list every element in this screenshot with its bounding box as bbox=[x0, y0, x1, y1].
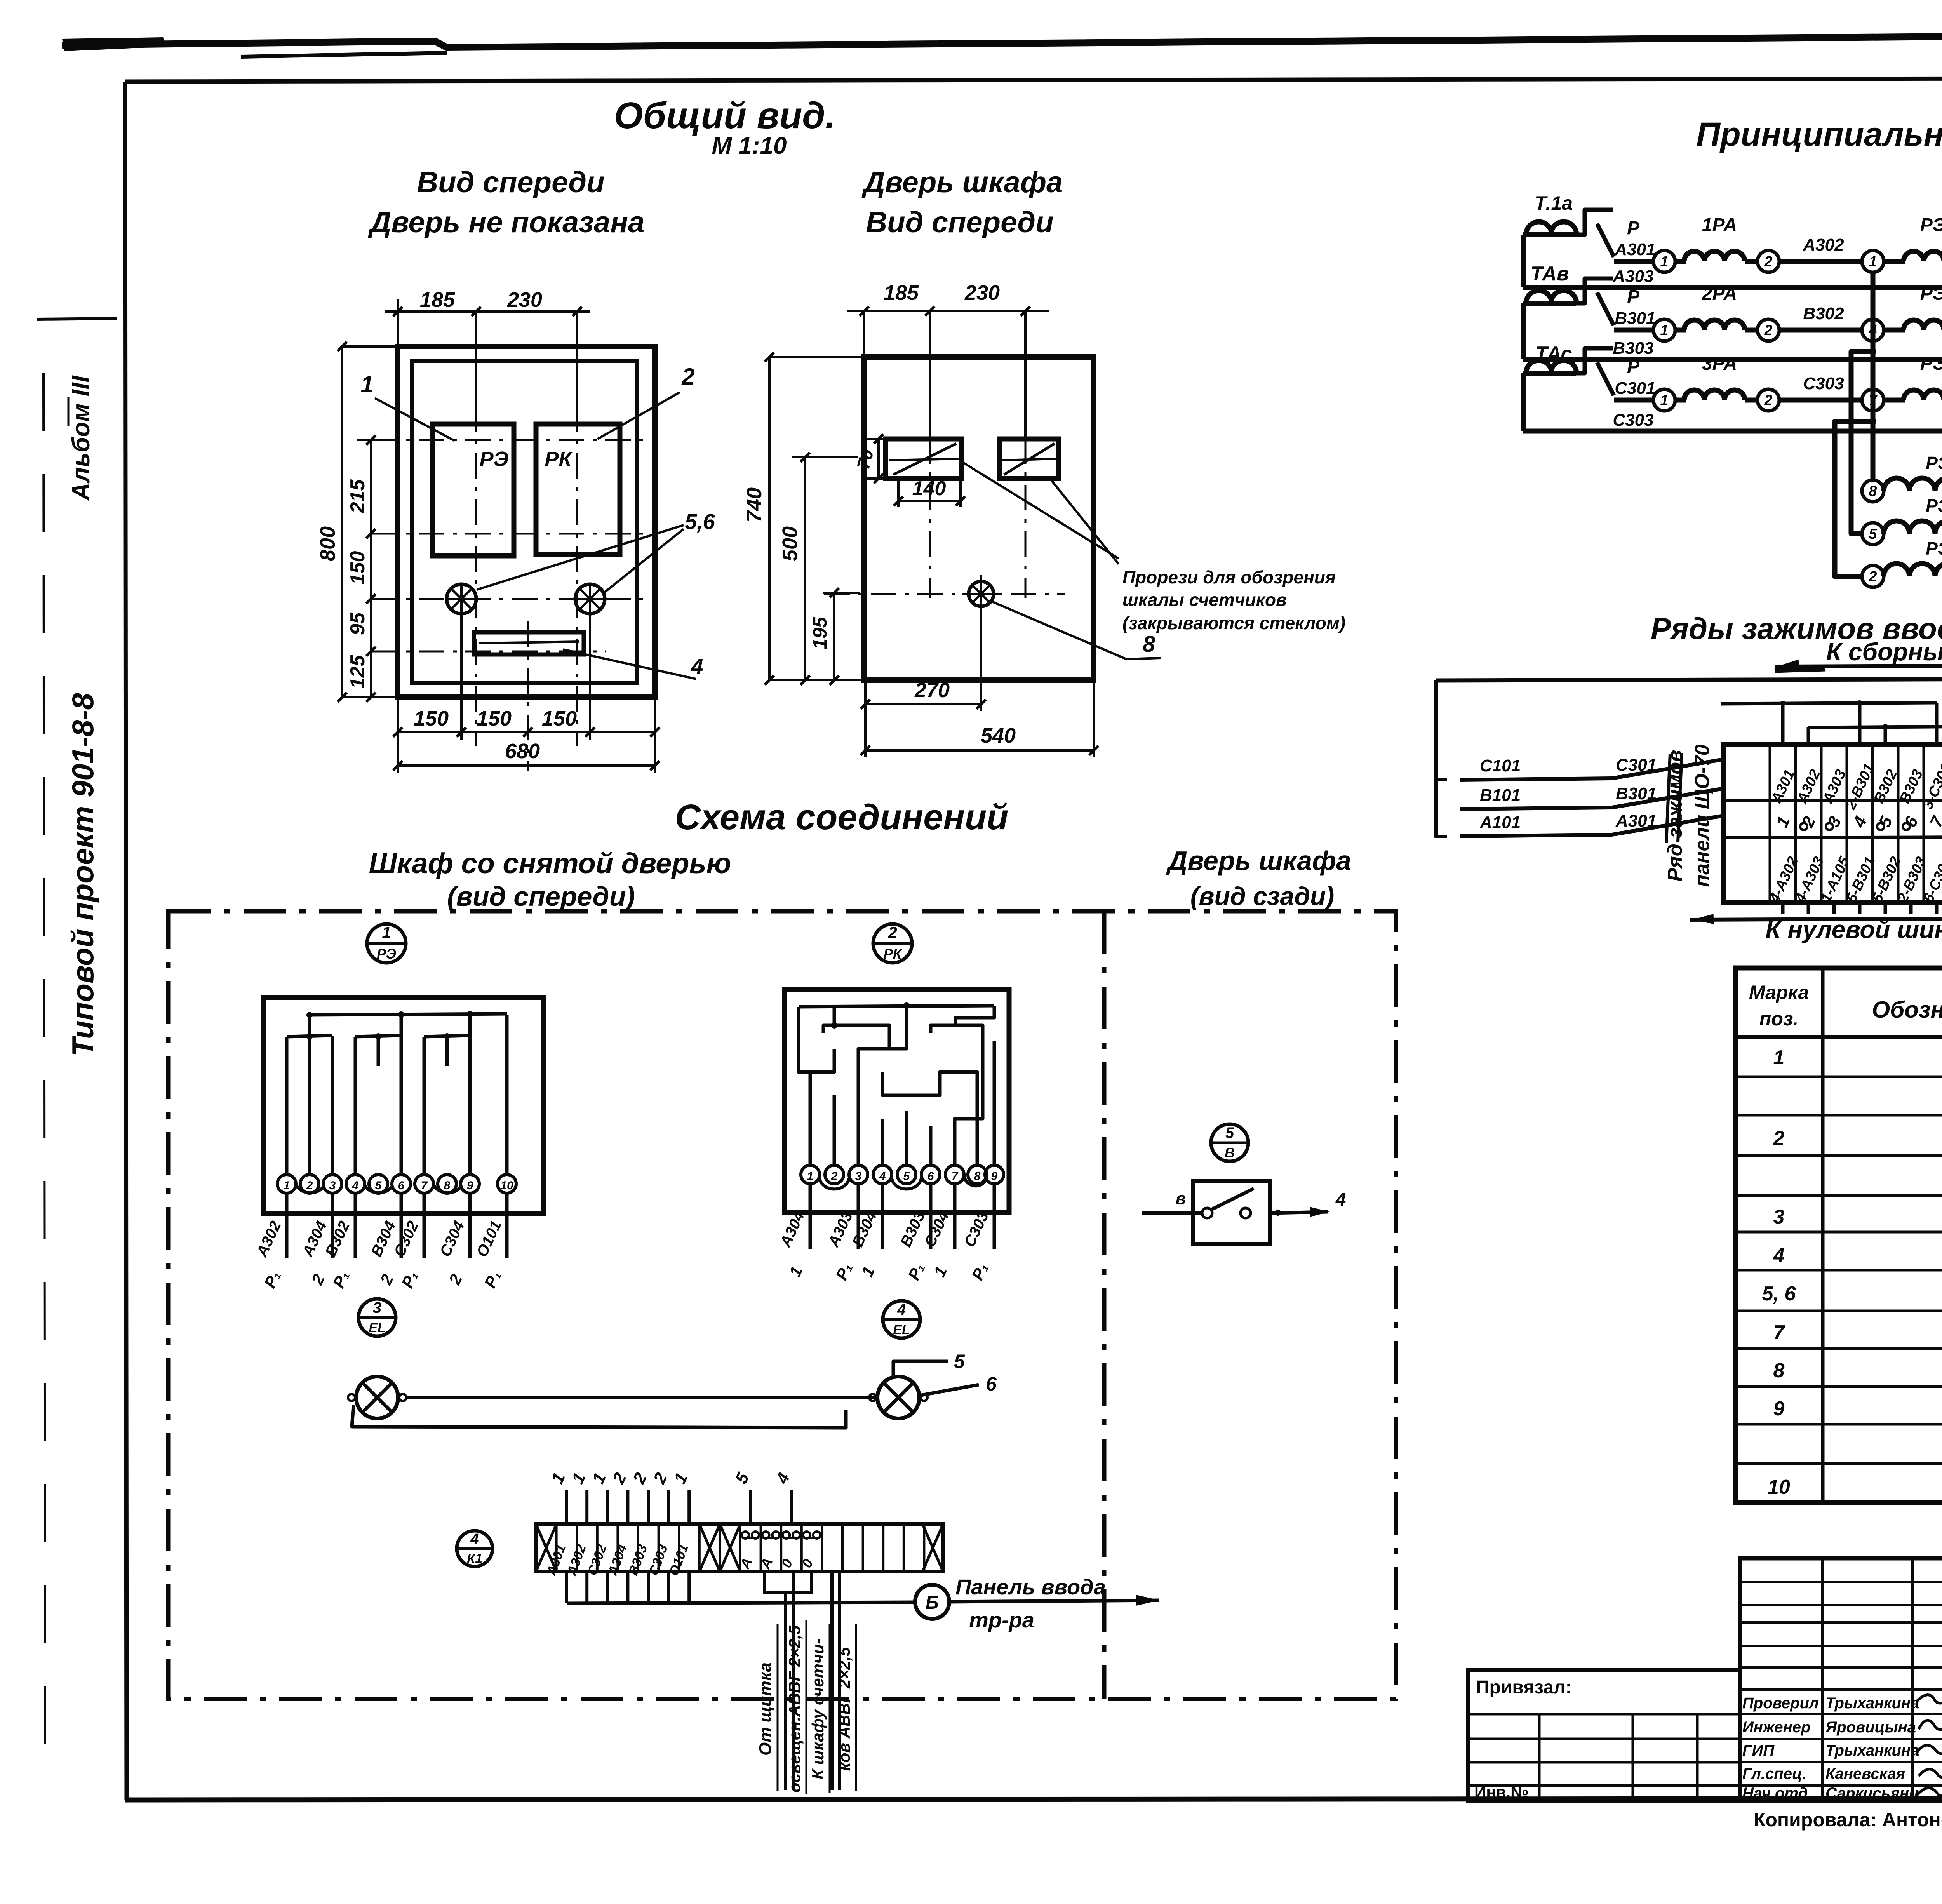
svg-text:шкалы счетчиков: шкалы счетчиков bbox=[1122, 590, 1287, 610]
svg-text:3РА: 3РА bbox=[1702, 353, 1737, 374]
left table rows bbox=[1468, 1713, 1740, 1716]
wiring box RK terminals 1-9 bbox=[801, 1165, 820, 1184]
svg-text:ЕL: ЕL bbox=[369, 1321, 385, 1335]
mid table verticals bbox=[1821, 1558, 1824, 1801]
K1 cable loop bbox=[764, 1572, 812, 1592]
voltage meter coil REh row В bbox=[1904, 320, 1942, 330]
svg-text:Типовой проект 901-8-8: Типовой проект 901-8-8 bbox=[66, 693, 100, 1056]
phase wires diagonal jogs bbox=[1612, 759, 1723, 778]
svg-text:150: 150 bbox=[477, 707, 512, 730]
title block left table frame bbox=[1468, 1670, 1740, 1801]
svg-text:Гл.спец.: Гл.спец. bbox=[1742, 1765, 1806, 1782]
REh voltage node 8 bbox=[1862, 480, 1884, 502]
switch P frame row А bbox=[1576, 210, 1613, 235]
junction node 1 row А bbox=[1862, 251, 1884, 272]
switch P blade row А bbox=[1597, 224, 1614, 257]
svg-text:8: 8 bbox=[1869, 483, 1877, 499]
return wire row А bbox=[1523, 285, 1942, 290]
svg-text:Т.1а: Т.1а bbox=[1535, 192, 1573, 214]
svg-text:7: 7 bbox=[421, 1179, 428, 1192]
node 1 row С bbox=[1653, 389, 1675, 411]
svg-text:Инженер: Инженер bbox=[1742, 1719, 1810, 1736]
wiring box REh bottom leads bbox=[285, 1193, 289, 1258]
null bus to K nulevoy shine bbox=[1690, 903, 1942, 920]
svg-text:А101: А101 bbox=[1479, 813, 1521, 832]
lamp EL left symbol bbox=[356, 1377, 398, 1418]
svg-text:А301: А301 bbox=[1614, 240, 1655, 259]
svg-text:1: 1 bbox=[807, 1170, 814, 1183]
svg-text:150: 150 bbox=[414, 707, 449, 730]
svg-text:6: 6 bbox=[398, 1179, 405, 1192]
svg-text:4: 4 bbox=[897, 1301, 906, 1318]
svg-text:500: 500 bbox=[778, 526, 802, 561]
callout circle 3/EL bbox=[358, 1299, 396, 1336]
centerline horizontal meters top bbox=[372, 439, 645, 441]
dim chain bottom 150x3 bbox=[398, 731, 655, 733]
svg-text:Принципиальная схема: Принципиальная схема bbox=[1696, 116, 1942, 153]
junction node 4 row В bbox=[1862, 319, 1884, 341]
title block mid table frame bbox=[1740, 1558, 1942, 1801]
cable group marks bbox=[1666, 754, 1670, 843]
svg-text:3: 3 bbox=[855, 1170, 862, 1183]
circle B bottom bbox=[915, 1585, 949, 1619]
CT left lead row А bbox=[1521, 235, 1526, 287]
svg-text:Марка: Марка bbox=[1749, 982, 1809, 1003]
leader slots to note bbox=[959, 460, 1119, 559]
wire junction-REhcoil row В bbox=[1884, 328, 1905, 333]
dim line 195 bbox=[833, 593, 835, 680]
svg-text:РК: РК bbox=[884, 946, 903, 962]
svg-text:В301: В301 bbox=[1615, 309, 1655, 328]
callout circle 2/RK bbox=[873, 924, 912, 963]
current transformer row А (bumps) bbox=[1523, 232, 1576, 237]
return wire row В bbox=[1523, 357, 1942, 362]
wire between lamps bbox=[406, 1396, 877, 1399]
svg-text:А302: А302 bbox=[1803, 235, 1844, 254]
lamp hole left (crossed circle) bbox=[447, 584, 476, 614]
main wire row С bbox=[1614, 398, 1654, 403]
svg-text:Инв.№: Инв.№ bbox=[1474, 1783, 1529, 1801]
svg-text:9: 9 bbox=[991, 1170, 998, 1183]
svg-text:1: 1 bbox=[382, 923, 391, 942]
svg-text:4: 4 bbox=[470, 1531, 479, 1547]
svg-text:ТАв: ТАв bbox=[1531, 263, 1569, 285]
svg-text:Вид спереди: Вид спереди bbox=[866, 206, 1053, 239]
wire node1-coil row А bbox=[1675, 259, 1686, 264]
node 2 row А bbox=[1758, 251, 1779, 272]
svg-text:2: 2 bbox=[1773, 1127, 1785, 1150]
voltage meter coil REh row А bbox=[1904, 251, 1942, 261]
K1 top leads 5 and 4 bbox=[749, 1490, 752, 1524]
wire node2-junction row С with label С303 bbox=[1779, 398, 1862, 403]
dim chain left inner bbox=[370, 440, 372, 697]
svg-text:800: 800 bbox=[316, 526, 339, 561]
svg-text:В101: В101 bbox=[1480, 786, 1521, 805]
K1 top leads with numbers bbox=[565, 1490, 568, 1524]
svg-text:М 1:10: М 1:10 bbox=[712, 132, 787, 159]
svg-text:4: 4 bbox=[691, 654, 703, 679]
svg-text:Панель ввода: Панель ввода bbox=[955, 1575, 1106, 1599]
svg-text:3: 3 bbox=[373, 1299, 381, 1316]
svg-text:в: в bbox=[1176, 1189, 1186, 1208]
svg-text:Схема соединений: Схема соединений bbox=[675, 797, 1009, 837]
lamp return wire loop bbox=[352, 1405, 846, 1428]
left margin stub line bbox=[37, 318, 117, 319]
svg-text:Каневская: Каневская bbox=[1825, 1765, 1905, 1782]
svg-text:Вид спереди: Вид спереди bbox=[417, 166, 604, 199]
svg-text:4: 4 bbox=[879, 1170, 886, 1183]
svg-text:Трыханкина: Трыханкина bbox=[1825, 1695, 1919, 1712]
svg-text:С301: С301 bbox=[1615, 379, 1655, 398]
sheet top edge line bbox=[62, 33, 1942, 47]
svg-text:740: 740 bbox=[743, 487, 766, 522]
svg-text:освещен.АВВГ 2×2,5: освещен.АВВГ 2×2,5 bbox=[785, 1625, 804, 1793]
svg-text:Прорези для обозрения: Прорези для обозрения bbox=[1122, 567, 1336, 587]
switch V box bbox=[1193, 1181, 1270, 1244]
door slot left centerline bbox=[929, 311, 931, 438]
dim line 740 bbox=[768, 357, 771, 680]
svg-text:РЭ: РЭ bbox=[480, 447, 509, 471]
svg-text:5: 5 bbox=[954, 1351, 965, 1372]
bus to collector bars with arrow bbox=[1775, 665, 1942, 667]
return wire row С bbox=[1523, 429, 1942, 434]
svg-text:К1: К1 bbox=[467, 1551, 482, 1566]
node 1 row А bbox=[1653, 251, 1675, 272]
svg-text:270: 270 bbox=[914, 679, 950, 702]
terminal strip horizontal dividers bbox=[1723, 799, 1942, 801]
callout circle 4/EL bbox=[883, 1301, 920, 1338]
bottom slot box bbox=[474, 632, 584, 654]
svg-text:10: 10 bbox=[500, 1179, 513, 1192]
K1 bottom bus to panel vvoda bbox=[565, 1572, 568, 1603]
centerline horizontal meters bottom bbox=[372, 533, 645, 535]
voltage meter coil REh row С bbox=[1904, 390, 1942, 400]
terminal strip feeder bus to cols 10-12 bbox=[1436, 679, 1942, 680]
svg-text:Б: Б bbox=[926, 1592, 939, 1613]
door slot right centerline bbox=[1024, 311, 1027, 438]
svg-text:Привязал:: Привязал: bbox=[1476, 1677, 1572, 1698]
svg-text:1: 1 bbox=[1869, 254, 1877, 270]
svg-text:4: 4 bbox=[1773, 1244, 1785, 1267]
bus row 301 cols 1 4 7 bbox=[1721, 703, 1937, 704]
svg-text:3: 3 bbox=[1773, 1206, 1785, 1228]
svg-text:1: 1 bbox=[360, 371, 373, 397]
terminal block K1 strip bbox=[536, 1524, 943, 1572]
door lamp centerline horizontal bbox=[824, 593, 1065, 595]
dim 140 slot width bbox=[898, 500, 961, 502]
svg-text:В303: В303 bbox=[1613, 339, 1653, 358]
svg-text:Проверил: Проверил bbox=[1742, 1695, 1819, 1712]
svg-text:680: 680 bbox=[505, 740, 540, 763]
svg-text:2РА: 2РА bbox=[1702, 284, 1737, 304]
svg-text:9: 9 bbox=[467, 1179, 473, 1192]
wire node2-junction row А with label А302 bbox=[1779, 259, 1862, 264]
svg-text:(закрываются стеклом): (закрываются стеклом) bbox=[1122, 613, 1345, 633]
parts table column lines bbox=[1821, 968, 1825, 1502]
centerline vertical slot bbox=[527, 621, 529, 771]
svg-text:1: 1 bbox=[1660, 254, 1668, 270]
svg-text:140: 140 bbox=[912, 477, 946, 500]
svg-text:РЭ: РЭ bbox=[1926, 496, 1942, 516]
current coil 1РА bbox=[1684, 251, 1745, 261]
wiring box RK frame bbox=[785, 989, 1009, 1213]
sheet left edge broken line bbox=[44, 373, 45, 1748]
svg-text:С303: С303 bbox=[1613, 411, 1653, 430]
svg-text:8: 8 bbox=[1773, 1359, 1785, 1382]
svg-text:2: 2 bbox=[1764, 322, 1772, 339]
svg-text:С101: С101 bbox=[1480, 756, 1521, 775]
svg-text:Саркисьянц: Саркисьянц bbox=[1825, 1785, 1919, 1802]
svg-text:Шкаф со снятой дверью: Шкаф со снятой дверью bbox=[369, 847, 731, 879]
wiring box RK terminal jumpers bbox=[820, 1175, 849, 1189]
switch P frame row С bbox=[1576, 348, 1613, 373]
wire coil-node2 row С bbox=[1745, 398, 1758, 403]
svg-text:РК: РК bbox=[545, 447, 573, 471]
svg-text:Яровицына: Яровицына bbox=[1825, 1719, 1916, 1736]
cabinet front view inner panel bbox=[412, 361, 637, 683]
callout circle 8/V switch bbox=[1211, 1124, 1248, 1161]
frame top line bbox=[125, 78, 1942, 82]
current coil 3РА bbox=[1684, 390, 1745, 400]
cabinet door divider dash-dot bbox=[1102, 911, 1107, 1699]
svg-text:5,6: 5,6 bbox=[685, 509, 715, 534]
lamp lead 5 bbox=[893, 1361, 948, 1378]
terminal strip middle row circles bbox=[1800, 823, 1807, 830]
svg-text:К нулевой шине: К нулевой шине bbox=[1765, 915, 1942, 943]
terminal strip box bbox=[1723, 745, 1942, 903]
svg-text:215: 215 bbox=[346, 479, 369, 514]
svg-text:РЭ: РЭ bbox=[1920, 284, 1942, 304]
svg-text:Дверь не показана: Дверь не показана bbox=[368, 206, 645, 239]
svg-text:ков АВВГ 2×2,5: ков АВВГ 2×2,5 bbox=[835, 1647, 853, 1771]
centerline horizontal lamps bbox=[372, 598, 645, 600]
wire node2-junction row В with label В302 bbox=[1779, 328, 1862, 333]
frame left line bbox=[125, 82, 127, 1800]
svg-text:Общий вид.: Общий вид. bbox=[614, 95, 835, 136]
wiring box REh internal wires bbox=[310, 1014, 507, 1015]
leader lamp to 8 bbox=[991, 601, 1161, 659]
svg-text:1: 1 bbox=[1773, 1046, 1785, 1069]
svg-text:1: 1 bbox=[1660, 392, 1668, 409]
svg-text:150: 150 bbox=[542, 707, 577, 730]
dim line top of front view bbox=[385, 310, 590, 313]
wiring box RK internal wires bbox=[799, 1006, 994, 1007]
svg-text:185: 185 bbox=[420, 288, 455, 312]
svg-text:К шкафу счетчи-: К шкафу счетчи- bbox=[809, 1639, 827, 1779]
dim line 680 bottom bbox=[398, 764, 655, 767]
callout circle 4/K1 bbox=[457, 1531, 492, 1566]
svg-text:5: 5 bbox=[375, 1179, 382, 1192]
wiring box RK bottom leads bbox=[809, 1184, 812, 1249]
svg-text:9: 9 bbox=[1773, 1398, 1785, 1420]
svg-text:3: 3 bbox=[329, 1179, 336, 1192]
parts table header line bbox=[1735, 1035, 1942, 1039]
svg-text:95: 95 bbox=[346, 612, 369, 635]
svg-text:Обозначение: Обозначение bbox=[1872, 997, 1942, 1023]
cable drop 1 double line bbox=[784, 1592, 787, 1790]
svg-text:Р: Р bbox=[1627, 218, 1640, 238]
svg-text:РЭ: РЭ bbox=[1926, 453, 1942, 473]
node 2 row С bbox=[1758, 389, 1779, 411]
bus row 302 cols 2 5 8 bbox=[1808, 726, 1942, 727]
svg-text:4: 4 bbox=[1335, 1190, 1346, 1210]
phase wire A101 bbox=[1460, 835, 1612, 836]
left table verticals bbox=[1538, 1714, 1541, 1801]
svg-text:тр-ра: тр-ра bbox=[969, 1608, 1034, 1632]
left wires bracket bbox=[1435, 780, 1447, 836]
svg-text:1РА: 1РА bbox=[1702, 215, 1737, 235]
lamp lead 6 bbox=[921, 1385, 979, 1395]
svg-text:РЭ: РЭ bbox=[1926, 538, 1942, 559]
dim line 270 bbox=[865, 703, 981, 705]
svg-text:7: 7 bbox=[952, 1170, 959, 1183]
svg-text:2: 2 bbox=[1868, 569, 1877, 585]
svg-text:(вид спереди): (вид спереди) bbox=[447, 881, 635, 912]
arrow to panel vvoda bbox=[949, 1600, 1159, 1602]
centerline horizontal slot bbox=[372, 651, 606, 653]
dim line top of door view bbox=[847, 310, 1049, 312]
svg-text:2: 2 bbox=[887, 923, 897, 942]
svg-text:6: 6 bbox=[927, 1170, 934, 1183]
dim 70 slot height bbox=[877, 439, 880, 479]
wiring box REh terminal jumpers bbox=[296, 1184, 323, 1193]
centerline vertical through REh bbox=[475, 406, 477, 746]
svg-text:Копировала: Антонова: Копировала: Антонова bbox=[1754, 1809, 1942, 1831]
switch P blade row С bbox=[1597, 362, 1614, 395]
svg-text:Альбом III: Альбом III bbox=[67, 375, 95, 501]
svg-text:8: 8 bbox=[974, 1170, 981, 1183]
svg-text:РЭ: РЭ bbox=[1920, 215, 1942, 235]
svg-text:185: 185 bbox=[884, 281, 919, 305]
wiring box REh frame bbox=[263, 997, 543, 1213]
dim line 500 bbox=[804, 457, 806, 680]
switch V input wire bbox=[1142, 1211, 1202, 1215]
svg-text:4: 4 bbox=[352, 1179, 359, 1192]
meter REh rectangle bbox=[433, 424, 514, 556]
svg-text:2: 2 bbox=[681, 364, 694, 390]
svg-text:7: 7 bbox=[1773, 1321, 1785, 1344]
K1 crossed cells bbox=[536, 1524, 557, 1572]
current coil 2РА bbox=[1684, 320, 1745, 330]
door slot left box bbox=[886, 439, 961, 479]
svg-text:195: 195 bbox=[809, 616, 831, 649]
svg-text:6: 6 bbox=[986, 1373, 997, 1395]
svg-text:В: В bbox=[1225, 1145, 1235, 1161]
cabinet front view outer box bbox=[398, 346, 655, 697]
svg-text:1: 1 bbox=[1660, 322, 1668, 339]
svg-text:125: 125 bbox=[346, 655, 369, 689]
svg-text:Р: Р bbox=[1627, 287, 1640, 307]
svg-text:ГИП: ГИП bbox=[1742, 1742, 1775, 1759]
wire junction-REhcoil row А bbox=[1884, 259, 1905, 264]
REh voltage coil bottom bbox=[1884, 564, 1942, 576]
svg-text:2: 2 bbox=[1764, 254, 1772, 270]
svg-text:поз.: поз. bbox=[1759, 1008, 1799, 1030]
feeder bus left drop bbox=[1434, 680, 1438, 835]
lamp hole right (crossed circle) bbox=[575, 584, 605, 614]
svg-text:А303: А303 bbox=[1612, 267, 1653, 286]
svg-text:Дверь шкафа: Дверь шкафа bbox=[1166, 846, 1351, 876]
switch V output wire with arrow bbox=[1270, 1212, 1328, 1213]
switch P frame row В bbox=[1576, 278, 1613, 303]
main wire row В bbox=[1614, 328, 1654, 333]
svg-text:150: 150 bbox=[346, 551, 369, 585]
svg-text:РЭ: РЭ bbox=[377, 946, 396, 962]
wire coil-node2 row В bbox=[1745, 328, 1758, 333]
wire junction-REhcoil row С bbox=[1884, 398, 1905, 403]
svg-text:В302: В302 bbox=[1803, 304, 1844, 323]
svg-text:(вид сзади): (вид сзади) bbox=[1190, 882, 1335, 910]
svg-text:5: 5 bbox=[1225, 1124, 1234, 1142]
svg-text:Трыханкина: Трыханкина bbox=[1825, 1742, 1919, 1759]
svg-text:К сборным шинам: К сборным шинам bbox=[1826, 638, 1942, 666]
svg-text:Дверь шкафа: Дверь шкафа bbox=[861, 166, 1063, 199]
switch V contacts and blade bbox=[1202, 1208, 1212, 1218]
parts table row lines bbox=[1735, 1076, 1942, 1078]
parts table outer frame bbox=[1735, 968, 1942, 1502]
cable drop 2 double line bbox=[830, 1572, 834, 1790]
REh voltage node 5 bbox=[1862, 523, 1884, 545]
terminal strip column lines bbox=[1769, 745, 1771, 903]
svg-text:8: 8 bbox=[1143, 632, 1155, 657]
REh voltage coil top bbox=[1884, 478, 1942, 491]
callout circle 1/REh bbox=[367, 924, 406, 963]
switch P blade row В bbox=[1597, 292, 1614, 325]
door lamp hole (crossed circle) bbox=[969, 581, 994, 606]
REh voltage node 2 bbox=[1862, 566, 1884, 587]
svg-text:230: 230 bbox=[507, 288, 542, 312]
phase wire B101 bbox=[1460, 808, 1612, 809]
svg-text:540: 540 bbox=[981, 724, 1016, 747]
wire node1-coil row В bbox=[1675, 328, 1686, 333]
wire coil-node2 row А bbox=[1745, 259, 1758, 264]
terminal strip bottom stubs bbox=[1781, 903, 1785, 914]
dim line 540 bbox=[865, 749, 1094, 752]
svg-text:230: 230 bbox=[964, 281, 1000, 305]
main wire row А bbox=[1614, 259, 1654, 264]
bus vertical from row B junction to REh voltage node 5 bbox=[1851, 341, 1873, 534]
mid table row lines bbox=[1740, 1581, 1942, 1583]
wiring box REh terminals 1-10 bbox=[277, 1175, 296, 1193]
wire node1-coil row С bbox=[1675, 398, 1686, 403]
svg-text:5: 5 bbox=[1869, 526, 1877, 542]
svg-text:2: 2 bbox=[1764, 392, 1772, 409]
node 2 row В bbox=[1758, 319, 1779, 341]
CT left lead row С bbox=[1521, 373, 1526, 431]
svg-text:5, 6: 5, 6 bbox=[1762, 1283, 1796, 1305]
node 1 row В bbox=[1653, 319, 1675, 341]
svg-text:2: 2 bbox=[831, 1170, 838, 1183]
current transformer row В (bumps) bbox=[1523, 301, 1576, 306]
svg-text:5: 5 bbox=[903, 1170, 910, 1183]
svg-text:10: 10 bbox=[1768, 1476, 1790, 1498]
lamp EL right symbol bbox=[877, 1377, 919, 1418]
dim line 800 left bbox=[341, 346, 343, 697]
svg-text:От щитка: От щитка bbox=[756, 1662, 775, 1756]
svg-text:2: 2 bbox=[306, 1179, 313, 1192]
cabinet outline dash-dot box bbox=[168, 911, 1396, 1699]
svg-text:Нач.отд.: Нач.отд. bbox=[1742, 1785, 1812, 1802]
CT left lead row В bbox=[1521, 303, 1526, 359]
door view outer box bbox=[864, 357, 1094, 680]
svg-text:ЕL: ЕL bbox=[893, 1323, 910, 1337]
frame bottom line bbox=[125, 1798, 1942, 1800]
meter RK rectangle bbox=[536, 424, 620, 554]
door slot right box bbox=[999, 439, 1058, 479]
svg-text:С303: С303 bbox=[1803, 374, 1844, 393]
current transformer row С (bumps) bbox=[1523, 371, 1576, 376]
svg-text:РЭ: РЭ bbox=[1920, 353, 1942, 374]
